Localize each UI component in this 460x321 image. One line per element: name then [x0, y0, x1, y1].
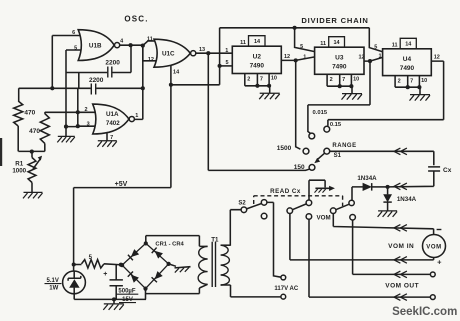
svg-text:R1: R1	[15, 160, 23, 167]
svg-text:DIVIDER CHAIN: DIVIDER CHAIN	[301, 16, 368, 25]
svg-text:1: 1	[225, 48, 228, 54]
svg-text:+: +	[103, 271, 107, 278]
svg-text:1N34A: 1N34A	[357, 175, 377, 182]
svg-text:13: 13	[199, 47, 205, 53]
svg-text:1500: 1500	[277, 145, 292, 152]
svg-text:1: 1	[135, 113, 138, 119]
svg-text:5: 5	[225, 60, 228, 66]
svg-text:U3: U3	[335, 55, 344, 62]
svg-text:Cx: Cx	[443, 167, 452, 174]
svg-text:U2: U2	[253, 54, 262, 61]
svg-text:S1: S1	[334, 153, 342, 159]
svg-text:14: 14	[333, 40, 340, 46]
svg-text:+5V: +5V	[115, 181, 128, 188]
svg-text:12: 12	[434, 55, 440, 61]
svg-text:2: 2	[247, 76, 250, 82]
svg-text:2200: 2200	[89, 77, 104, 84]
svg-text:10: 10	[421, 78, 427, 84]
svg-text:7490: 7490	[400, 65, 415, 72]
svg-text:14: 14	[254, 39, 261, 45]
svg-text:11: 11	[147, 37, 153, 43]
svg-text:470: 470	[29, 128, 40, 135]
svg-text:0.015: 0.015	[313, 110, 328, 116]
svg-text:117V AC: 117V AC	[274, 286, 298, 292]
svg-text:7: 7	[410, 78, 413, 84]
svg-text:14: 14	[405, 42, 412, 48]
svg-text:5: 5	[374, 44, 377, 50]
svg-text:U1B: U1B	[89, 42, 102, 49]
svg-text:150: 150	[294, 164, 305, 171]
svg-text:VOM: VOM	[317, 215, 331, 222]
svg-text:1: 1	[303, 54, 306, 60]
svg-text:1W: 1W	[49, 286, 58, 292]
svg-text:VOM OUT: VOM OUT	[385, 283, 419, 290]
svg-text:READ Cx: READ Cx	[270, 188, 301, 195]
svg-text:2: 2	[330, 77, 333, 83]
svg-text:1000: 1000	[12, 168, 26, 175]
svg-text:7490: 7490	[250, 62, 265, 69]
svg-text:7: 7	[342, 77, 345, 83]
svg-text:14: 14	[173, 69, 180, 75]
svg-text:U1A: U1A	[106, 111, 119, 118]
svg-text:500µF: 500µF	[118, 288, 135, 294]
svg-text:T1: T1	[211, 237, 219, 244]
svg-text:RANGE: RANGE	[332, 143, 356, 149]
svg-text:12: 12	[358, 55, 364, 61]
svg-text:7402: 7402	[106, 120, 120, 127]
svg-text:10: 10	[271, 76, 277, 82]
svg-text:2: 2	[84, 107, 87, 113]
svg-text:7490: 7490	[332, 63, 347, 70]
svg-text:0.15: 0.15	[330, 122, 342, 128]
svg-text:2200: 2200	[105, 60, 120, 67]
svg-text:CR1 - CR4: CR1 - CR4	[155, 241, 184, 247]
svg-text:11: 11	[392, 43, 398, 49]
svg-text:3: 3	[87, 121, 90, 127]
svg-text:VOM IN: VOM IN	[388, 243, 414, 250]
svg-text:15V: 15V	[122, 297, 133, 303]
svg-text:10: 10	[353, 77, 359, 83]
svg-text:1N34A: 1N34A	[397, 196, 417, 203]
svg-text:OSC.: OSC.	[124, 15, 148, 24]
svg-text:470: 470	[24, 109, 35, 116]
svg-text:S2: S2	[238, 201, 246, 207]
svg-text:6: 6	[72, 30, 75, 36]
svg-text:U1C: U1C	[162, 51, 175, 58]
svg-text:12: 12	[148, 57, 154, 63]
svg-text:11: 11	[320, 41, 326, 47]
svg-text:11: 11	[240, 40, 246, 46]
svg-text:1: 1	[378, 53, 381, 59]
svg-text:7: 7	[260, 76, 263, 82]
svg-text:12: 12	[284, 54, 290, 60]
svg-text:U4: U4	[403, 56, 412, 63]
svg-text:5: 5	[300, 44, 303, 50]
svg-text:+: +	[437, 258, 442, 267]
svg-text:VOM: VOM	[426, 245, 441, 251]
svg-text:2: 2	[398, 78, 401, 84]
svg-text:5: 5	[74, 46, 77, 52]
svg-text:SeekIC.com: SeekIC.com	[392, 306, 457, 318]
